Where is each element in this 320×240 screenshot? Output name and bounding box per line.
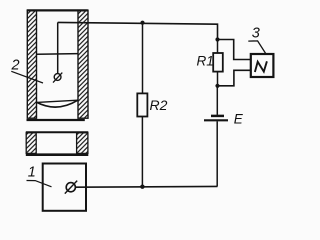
- wire: branch from top node to recorder 3 (upper lead): [218, 40, 251, 60]
- node: junction of top bus and R2 branch: [140, 21, 144, 25]
- wire: internal lead down to lamp: [57, 22, 59, 73]
- photodetector symbol (circle with slash): [65, 181, 77, 194]
- leader line for label 1: [27, 181, 52, 187]
- wire: branch from bottom node to recorder 3 (lower lead): [218, 70, 251, 86]
- wire: R2 bottom lead: [141, 117, 143, 187]
- collar: left hatched block: [26, 133, 36, 154]
- leader line for label 3: [248, 41, 266, 54]
- vessel 2: liquid meniscus chord: [37, 100, 78, 102]
- vessel 2: internal electrode plate: [37, 53, 78, 56]
- svg-text:1: 1: [28, 165, 36, 181]
- collar: right hatched block: [77, 133, 88, 154]
- svg-text:E: E: [234, 111, 244, 126]
- wire: battery top lead: [216, 86, 218, 115]
- wire: top bus from vessel to right side, down to node: [58, 22, 218, 39]
- vessel 2: right hatched wall: [78, 10, 88, 118]
- node: bottom junction at R1: [215, 84, 219, 88]
- vessel 2: left hatched wall: [27, 10, 36, 118]
- photodetector box 1: [43, 164, 86, 211]
- lamp symbol inside vessel (circle with slash): [53, 73, 62, 83]
- resistor R1: [213, 53, 223, 72]
- wire: R1 top lead: [217, 40, 219, 54]
- vessel 2: top cap line: [27, 9, 88, 11]
- node: top junction at R1: [215, 37, 219, 41]
- wire: bottom bus from photodetector to battery: [75, 185, 217, 188]
- node: junction of bottom bus and R2: [140, 185, 144, 189]
- resistor R2: [137, 93, 147, 116]
- wire: battery bottom lead: [216, 121, 218, 186]
- battery E: short plate: [211, 115, 224, 118]
- svg-text:3: 3: [252, 26, 260, 42]
- collar: top line: [26, 131, 89, 133]
- svg-text:R2: R2: [150, 97, 168, 113]
- vessel 2: liquid meniscus arc: [37, 100, 78, 107]
- collar: bottom line: [26, 153, 89, 156]
- recorder box 3: [251, 54, 274, 77]
- wire: R1 bottom lead: [217, 72, 219, 86]
- recorder N glyph: [255, 61, 267, 72]
- wire: R2 top lead: [142, 23, 144, 94]
- vessel 2: bottom cap line: [27, 119, 85, 121]
- leader line for label 2: [11, 71, 43, 83]
- svg-text:R1: R1: [197, 54, 214, 69]
- battery E: long plate: [204, 119, 228, 121]
